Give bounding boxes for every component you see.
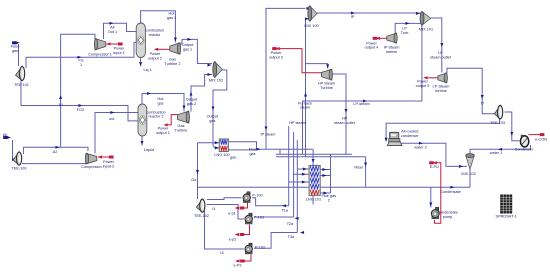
svg-text:TEE-103: TEE-103 [490,121,505,125]
svg-text:E-PU: E-PU [430,165,439,169]
svg-text:Air: Air [110,26,115,30]
svg-text:gas: gas [157,101,163,105]
svg-text:SPRDSHT-1: SPRDSHT-1 [496,215,517,219]
svg-text:T3a: T3a [288,235,295,239]
svg-text:Condensate: Condensate [440,190,460,194]
svg-text:e-p2: e-p2 [229,238,237,242]
svg-text:Hot: Hot [158,97,165,101]
svg-text:Power: Power [150,52,161,56]
svg-text:gas: gas [230,156,236,160]
svg-text:MIX 100: MIX 100 [304,24,318,28]
svg-text:HP steam: HP steam [289,121,306,125]
svg-text:Turb: Turb [401,31,409,35]
svg-text:IP-Steam: IP-Steam [384,46,400,50]
svg-text:T1a: T1a [281,209,288,213]
svg-text:e-P3: e-P3 [233,264,241,268]
svg-text:Gas: Gas [169,58,176,62]
svg-text:gas: gas [209,119,215,123]
svg-text:water 2: water 2 [414,145,426,149]
svg-text:Out 1: Out 1 [108,30,117,34]
svg-text:A2: A2 [53,150,58,154]
svg-text:LP: LP [402,27,407,31]
svg-text:input 1: input 1 [113,51,124,55]
svg-text:Output: Output [186,98,198,102]
svg-text:gas: gas [249,152,255,156]
svg-text:LP-steam: LP-steam [353,102,369,106]
svg-text:LP-Steam: LP-Steam [433,85,450,89]
svg-text:reactor 2: reactor 2 [149,115,164,119]
svg-text:Ga: Ga [191,178,197,182]
svg-text:MIX 102: MIX 102 [209,79,223,83]
svg-text:out: out [109,117,115,121]
svg-text:condenser: condenser [401,134,419,138]
svg-text:FG: FG [78,59,83,63]
svg-text:Gas: Gas [178,124,185,128]
svg-text:TEE-102: TEE-102 [194,214,209,218]
svg-text:T2a: T2a [287,222,294,226]
svg-text:Power: Power [271,51,282,55]
svg-text:steam outlet: steam outlet [334,121,356,125]
svg-text:input-2: input-2 [103,165,115,169]
svg-text:Compressor: Compressor [81,165,102,169]
svg-text:Hot: Hot [169,12,176,16]
svg-text:output 5: output 5 [416,84,430,88]
svg-text:steam: steam [300,106,310,110]
svg-text:HP Steam: HP Steam [318,82,335,86]
svg-text:e-p1: e-p1 [228,212,236,216]
svg-text:TEE 101: TEE 101 [14,83,29,87]
svg-text:pump: pump [443,215,453,219]
svg-text:P-102: P-102 [255,246,265,250]
svg-text:turbine: turbine [386,50,398,54]
svg-text:P-100: P-100 [252,194,262,198]
svg-text:t3: t3 [220,251,223,255]
svg-text:Condensate: Condensate [437,211,457,215]
svg-text:2: 2 [328,198,330,202]
svg-text:steam outlet: steam outlet [430,56,452,60]
svg-text:t1: t1 [212,207,215,211]
svg-text:output 2: output 2 [148,57,162,61]
svg-text:Riser: Riser [354,166,364,170]
svg-text:gas 2: gas 2 [187,102,196,106]
svg-text:TEE-100: TEE-100 [12,166,27,170]
svg-text:e-CON: e-CON [535,138,547,142]
svg-text:Furnace: Furnace [298,101,312,105]
svg-text:IP: IP [351,15,355,19]
svg-text:Condenser: Condenser [515,148,534,152]
svg-text:reactor: reactor [149,33,162,37]
svg-text:Liquid: Liquid [144,148,154,152]
svg-text:A1: A1 [58,103,63,107]
svg-text:Turbine 2: Turbine 2 [165,62,181,66]
svg-text:IP steam: IP steam [261,132,276,136]
svg-text:LP: LP [438,51,443,55]
svg-text:t7: t7 [481,102,484,106]
svg-text:MIX 103: MIX 103 [461,172,475,176]
svg-text:Power: Power [366,41,377,45]
svg-text:LNG 100: LNG 100 [214,153,229,157]
svg-text:1: 1 [80,63,82,67]
svg-text:output 4: output 4 [365,46,379,50]
svg-text:Power: Power [114,47,125,51]
svg-text:P-101: P-101 [254,216,264,220]
svg-text:Power: Power [158,127,169,131]
svg-text:MIX 101: MIX 101 [419,28,433,32]
svg-text:Flue: Flue [249,148,256,152]
svg-text:Turbine: Turbine [320,86,333,90]
svg-text:Output: Output [207,115,219,119]
svg-text:Air: Air [3,133,8,137]
svg-text:LNG 101: LNG 101 [306,198,321,202]
svg-text:Output: Output [182,43,194,47]
svg-text:Feed: Feed [11,45,20,49]
svg-text:gas: gas [12,49,18,53]
svg-text:Compressor 1: Compressor 1 [88,52,112,56]
svg-text:gas 1: gas 1 [183,47,192,51]
svg-text:Turbine: Turbine [175,128,188,132]
svg-text:turbine: turbine [435,89,447,93]
svg-text:gas 1: gas 1 [167,16,176,20]
svg-text:HP: HP [342,117,348,121]
svg-text:Power: Power [417,80,428,84]
svg-text:FG2: FG2 [77,108,84,112]
svg-text:combustion: combustion [145,29,164,33]
svg-text:output 3: output 3 [269,55,283,59]
svg-text:output 1: output 1 [156,131,170,135]
svg-text:Liq 1: Liq 1 [143,68,151,72]
svg-text:Flue gas: Flue gas [322,194,337,198]
svg-text:water 1: water 1 [490,151,502,155]
svg-text:combustion: combustion [146,110,165,114]
svg-text:Air-cooled: Air-cooled [401,130,418,134]
svg-text:Power: Power [103,160,114,164]
